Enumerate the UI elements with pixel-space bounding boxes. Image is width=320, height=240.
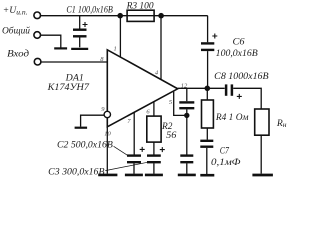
- svg-text:R3 100: R3 100: [126, 0, 154, 11]
- svg-text:+Uи.п.: +Uи.п.: [3, 5, 28, 17]
- resistor R2: [147, 116, 161, 142]
- capacitor C3: [147, 147, 165, 174]
- wire pin 10: [106, 127, 108, 174]
- wire C8 to Rн: [233, 88, 261, 109]
- svg-text:С1 100,0х16В: С1 100,0х16В: [66, 4, 113, 15]
- ground (C2): [125, 174, 143, 177]
- svg-text:12: 12: [181, 82, 188, 89]
- terminal Вход: [34, 58, 41, 65]
- ground (pin 9): [75, 127, 88, 129]
- ground (C1): [71, 48, 88, 50]
- svg-text:Rн: Rн: [276, 118, 287, 129]
- wire top rail: [41, 15, 208, 17]
- wire Общий to ground: [41, 35, 61, 47]
- svg-text:К174УН7: К174УН7: [47, 82, 91, 93]
- ground (pin 10): [98, 174, 117, 177]
- wire R2 to C3: [153, 142, 155, 155]
- resistor R3: [127, 10, 154, 21]
- ground (pin 5 cap): [178, 174, 196, 177]
- svg-text:С8 1000х16В: С8 1000х16В: [214, 71, 269, 82]
- capacitor C6: [201, 34, 217, 89]
- wire input pin 8: [41, 61, 107, 63]
- terminal Общий: [34, 32, 41, 39]
- leader line C3: [105, 162, 148, 170]
- leader line C2: [114, 146, 128, 155]
- svg-text:10: 10: [104, 130, 111, 137]
- wire pin 4: [160, 16, 162, 80]
- op-amp DA1 К174УН7: [107, 50, 177, 127]
- capacitor C2: [127, 147, 145, 174]
- capacitor C8: [226, 84, 242, 99]
- node junction left of R3: [117, 13, 123, 19]
- capacitor C7: [200, 141, 213, 174]
- pin 9 bubble: [104, 111, 110, 117]
- wire pin 9 to ground: [81, 115, 105, 126]
- capacitor bootstrap upper: [179, 88, 194, 115]
- svg-text:0,1мФ: 0,1мФ: [211, 157, 241, 168]
- svg-text:56: 56: [166, 130, 176, 141]
- capacitor C1: [73, 16, 88, 48]
- wire pin 1: [119, 16, 121, 58]
- node junction right of R3: [158, 13, 164, 19]
- resistor R4: [202, 88, 214, 139]
- svg-text:С2 500,0х16В: С2 500,0х16В: [57, 140, 113, 151]
- resistor Rн: [255, 109, 269, 174]
- svg-text:Общий: Общий: [2, 25, 30, 36]
- ground (Общий): [54, 47, 67, 49]
- svg-text:С3 300,0х16В: С3 300,0х16В: [48, 166, 104, 177]
- ground (Rн): [251, 174, 254, 177]
- ground (C3): [145, 174, 163, 177]
- wire output pin 12: [178, 87, 225, 89]
- node output junction: [205, 86, 211, 92]
- node pin 5 junction: [184, 113, 189, 118]
- terminal +Uип: [34, 12, 41, 19]
- ground (C7): [200, 174, 214, 177]
- svg-text:Вход: Вход: [7, 48, 29, 59]
- wire pin 7: [133, 112, 135, 154]
- wire rail to C6: [207, 16, 209, 43]
- svg-text:100,0х16В: 100,0х16В: [216, 48, 258, 59]
- capacitor lower (pin 5 node to ground): [180, 115, 193, 173]
- wire pin 6: [153, 102, 155, 116]
- svg-text:С6: С6: [233, 36, 245, 47]
- wire pin 5: [174, 92, 187, 116]
- svg-text:1: 1: [114, 46, 117, 53]
- svg-text:С7: С7: [220, 146, 230, 157]
- svg-text:R4 1 Ом: R4 1 Ом: [215, 112, 249, 123]
